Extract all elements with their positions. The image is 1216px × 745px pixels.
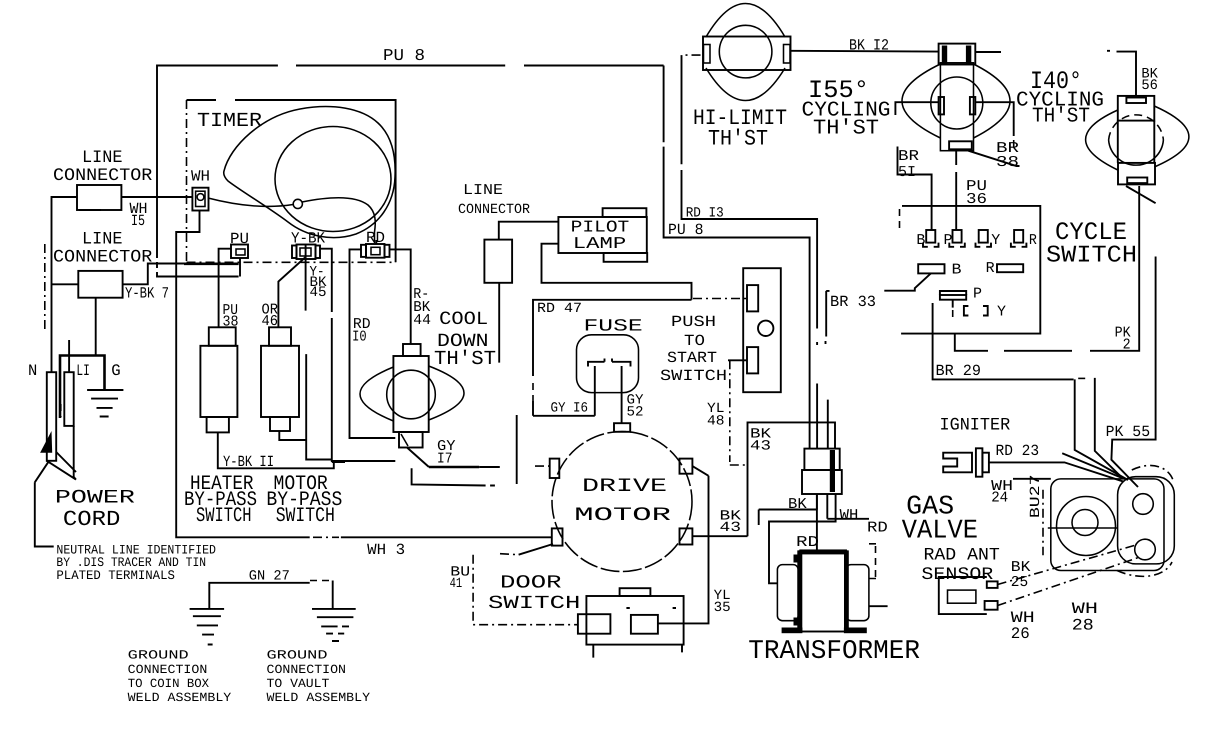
svg-text:WH: WH bbox=[840, 507, 859, 524]
svg-text:I5: I5 bbox=[131, 212, 145, 230]
relay contact R bar bbox=[986, 260, 1024, 277]
svg-text:41: 41 bbox=[450, 576, 463, 592]
drive motor bbox=[552, 432, 692, 572]
label motor by-pass switch bbox=[266, 473, 342, 528]
svg-text:P: P bbox=[973, 285, 982, 302]
timer cam follower small circle bbox=[293, 199, 302, 208]
svg-text:B: B bbox=[952, 261, 962, 278]
power cord body bbox=[35, 404, 76, 540]
heater by-pass switch bbox=[200, 327, 237, 432]
power cord prong N bbox=[47, 372, 56, 461]
svg-text:GROUND: GROUND bbox=[267, 648, 328, 662]
svg-text:26: 26 bbox=[1011, 625, 1030, 643]
labels B P Y R (top row) bbox=[916, 232, 1037, 249]
svg-text:TO COIN BOX: TO COIN BOX bbox=[128, 677, 210, 691]
svg-text:MOTOR: MOTOR bbox=[574, 504, 671, 526]
svg-text:SENSOR: SENSOR bbox=[921, 565, 993, 585]
motor upper-left terminal bbox=[535, 459, 559, 478]
label POWER CORD bbox=[55, 487, 135, 533]
ground symbol coin box bbox=[190, 609, 225, 645]
label 140 cycling thst bbox=[1016, 67, 1104, 129]
wire motor by-pass bottom bbox=[279, 431, 306, 440]
wire BK (plug to motor junction) bbox=[759, 494, 817, 525]
svg-text:I7: I7 bbox=[437, 451, 453, 468]
wire BK 12 bbox=[791, 37, 1001, 55]
wire PU 8 (top horizontal run) bbox=[157, 46, 664, 277]
svg-text:LINE: LINE bbox=[463, 182, 503, 199]
cycle switch contact 2 bbox=[949, 230, 965, 247]
ground symbol vault bbox=[310, 581, 356, 642]
door switch bbox=[578, 588, 684, 657]
power cord prong LI bbox=[64, 340, 73, 426]
wire GN 27 bbox=[209, 568, 309, 609]
igniter bbox=[943, 448, 989, 476]
wire PK 55 bbox=[1106, 186, 1156, 487]
svg-text:CONNECTOR: CONNECTOR bbox=[458, 202, 531, 218]
svg-text:GN 27: GN 27 bbox=[249, 568, 290, 584]
label ground vault bbox=[267, 648, 371, 705]
svg-text:5I: 5I bbox=[898, 164, 916, 181]
svg-text:POWER: POWER bbox=[55, 487, 135, 509]
svg-text:IGNITER: IGNITER bbox=[940, 415, 1011, 435]
cycle switch box bbox=[900, 206, 1138, 334]
wire GY 17 bbox=[407, 438, 500, 468]
wire Y-BK 7 bbox=[123, 264, 239, 303]
svg-text:BK I2: BK I2 bbox=[849, 37, 889, 55]
wire RD left (plug to core) bbox=[796, 494, 819, 551]
svg-text:TO: TO bbox=[684, 332, 705, 350]
transformer plug assembly bbox=[802, 449, 842, 494]
wire BU27 bbox=[1028, 475, 1044, 556]
svg-text:WH: WH bbox=[1072, 600, 1098, 618]
svg-text:CORD: CORD bbox=[63, 508, 120, 532]
wire WH 15 bbox=[52, 197, 200, 372]
motor right-upper terminal bbox=[680, 459, 709, 476]
svg-text:PK 55: PK 55 bbox=[1106, 423, 1151, 441]
svg-text:Y-BK II: Y-BK II bbox=[223, 453, 274, 471]
svg-text:RD 23: RD 23 bbox=[996, 442, 1040, 460]
neutral line note bbox=[35, 540, 216, 583]
hi-limit thermostat bbox=[703, 4, 791, 101]
svg-text:FUSE: FUSE bbox=[584, 318, 643, 337]
ground symbol (power cord) bbox=[87, 390, 123, 417]
svg-text:Y: Y bbox=[991, 232, 1000, 249]
wire OR 46 bbox=[262, 257, 306, 330]
svg-text:RD I3: RD I3 bbox=[686, 206, 724, 222]
wire RD 47 boundary bbox=[533, 300, 692, 416]
transformer core bbox=[777, 550, 869, 633]
svg-text:RAD ANT: RAD ANT bbox=[924, 546, 1000, 566]
svg-text:VALVE: VALVE bbox=[902, 517, 978, 547]
svg-text:28: 28 bbox=[1072, 616, 1094, 634]
label 155 cycling thst bbox=[802, 76, 891, 141]
svg-text:52: 52 bbox=[627, 405, 644, 421]
wire RD right (plug to bracket) bbox=[827, 494, 888, 606]
svg-text:48: 48 bbox=[707, 414, 725, 430]
svg-text:TH'ST: TH'ST bbox=[434, 347, 496, 370]
svg-text:LI: LI bbox=[76, 362, 89, 380]
svg-text:TRANSFORMER: TRANSFORMER bbox=[748, 637, 920, 667]
wire Y-BK 45 stub bbox=[306, 245, 332, 460]
svg-text:PLATED TERMINALS: PLATED TERMINALS bbox=[56, 568, 175, 583]
line connector 2 bbox=[52, 230, 153, 298]
dash-dot boundary left of power cord bbox=[44, 244, 46, 332]
svg-text:BU27: BU27 bbox=[1028, 475, 1044, 519]
140 cycling thermostat bbox=[1086, 96, 1189, 184]
wire pilot lamp bottom to RD47 corner bbox=[542, 244, 692, 300]
svg-text:START: START bbox=[667, 349, 717, 367]
svg-text:N: N bbox=[28, 362, 37, 380]
wire connector3 to pilot lamp bbox=[499, 222, 559, 240]
terminal WH (timer) bbox=[191, 168, 210, 211]
wire GY 16 bbox=[533, 401, 595, 417]
cycle switch contact 1 bbox=[923, 230, 939, 247]
svg-text:TIMER: TIMER bbox=[197, 110, 262, 133]
wire R-BK 44 bbox=[390, 249, 432, 344]
svg-text:44: 44 bbox=[413, 312, 431, 329]
wire PU 38 bbox=[219, 249, 239, 331]
label WH 28 bbox=[1072, 600, 1098, 634]
pilot lamp bbox=[558, 208, 647, 262]
wire to motor upper-left terminal bbox=[412, 468, 495, 485]
svg-text:Y-BK 7: Y-BK 7 bbox=[125, 285, 169, 303]
svg-text:GY I6: GY I6 bbox=[551, 401, 589, 417]
wire PK 2 bbox=[955, 186, 1139, 354]
svg-text:TH'ST: TH'ST bbox=[1032, 106, 1090, 129]
svg-text:43: 43 bbox=[750, 439, 771, 455]
wire WH (plug to transformer) bbox=[769, 494, 858, 583]
wire line-connector3 drop bbox=[498, 283, 500, 363]
svg-text:Y-BK: Y-BK bbox=[291, 230, 326, 248]
wire BK 56 bbox=[1107, 51, 1158, 96]
svg-text:43: 43 bbox=[720, 520, 742, 536]
svg-text:WELD ASSEMBLY: WELD ASSEMBLY bbox=[128, 691, 232, 705]
svg-text:2: 2 bbox=[1123, 337, 1131, 354]
svg-text:WH 3: WH 3 bbox=[367, 541, 405, 559]
gas valve body bbox=[1048, 465, 1174, 576]
svg-text:CONNECTOR: CONNECTOR bbox=[53, 166, 153, 186]
line connector 3 label bbox=[458, 182, 531, 218]
motor by-pass switch bbox=[261, 327, 299, 431]
155 cycling thermostat bbox=[902, 44, 1010, 151]
wire left rail to WH 3 bbox=[176, 277, 551, 560]
relay contact B bar bbox=[918, 261, 961, 278]
svg-text:BR 29: BR 29 bbox=[936, 362, 982, 380]
svg-text:BK: BK bbox=[788, 496, 807, 513]
svg-text:SWITCH: SWITCH bbox=[488, 593, 580, 614]
label cool down thst bbox=[434, 308, 496, 370]
svg-text:PU 8: PU 8 bbox=[668, 221, 704, 239]
push to start switch bbox=[743, 268, 781, 392]
svg-text:38: 38 bbox=[996, 154, 1019, 171]
svg-text:COOL: COOL bbox=[439, 308, 488, 330]
label ground coin box bbox=[128, 648, 232, 705]
svg-text:56: 56 bbox=[1141, 78, 1158, 94]
wire from Y-BK terminal right side bbox=[320, 249, 332, 462]
svg-text:TH'ST: TH'ST bbox=[708, 127, 768, 152]
svg-text:35: 35 bbox=[714, 600, 731, 616]
label WH 24 bbox=[991, 478, 1013, 507]
timer internal curve from WH terminal to follower bbox=[208, 198, 293, 206]
svg-text:RD: RD bbox=[867, 519, 888, 536]
wire BU 41 bbox=[450, 555, 578, 625]
label GAS VALVE bbox=[902, 493, 978, 547]
svg-text:DRIVE: DRIVE bbox=[582, 475, 667, 497]
svg-text:I0: I0 bbox=[352, 329, 367, 346]
svg-text:PU 8: PU 8 bbox=[383, 46, 425, 65]
wire RD 13 bbox=[682, 55, 818, 449]
wire fuse left to GY16 bbox=[594, 366, 596, 416]
svg-text:CONNECTION: CONNECTION bbox=[128, 663, 208, 677]
cool down thermostat bbox=[360, 344, 464, 448]
relay contact P bbox=[940, 285, 982, 318]
svg-text:TH'ST: TH'ST bbox=[813, 118, 879, 141]
wire BR 29 bbox=[933, 303, 1123, 478]
label rad ant sensor bbox=[921, 546, 999, 586]
wire RD 23 bbox=[989, 442, 1124, 482]
svg-text:R: R bbox=[1029, 232, 1037, 249]
standalone vertical left of motor bbox=[516, 415, 518, 484]
svg-text:P: P bbox=[944, 232, 953, 249]
wire 155 left terminal / BR 51 bbox=[895, 102, 938, 230]
fuse bbox=[577, 318, 643, 393]
timer cam circle bbox=[275, 127, 391, 232]
wire PU 36 bbox=[956, 149, 987, 230]
svg-text:SWITCH: SWITCH bbox=[196, 505, 252, 528]
wire BR 33 bbox=[826, 273, 931, 448]
label hi-limit thst bbox=[693, 106, 787, 152]
wire BK 25 bbox=[998, 545, 1136, 591]
wire PU 8 vertical drop to junction bbox=[664, 66, 810, 449]
svg-text:TO VAULT: TO VAULT bbox=[267, 677, 330, 691]
svg-text:SWITCH: SWITCH bbox=[1046, 243, 1137, 270]
timer internal curve from follower to RD terminal bbox=[302, 198, 375, 243]
cycle switch contact 4 bbox=[1011, 230, 1027, 247]
motor top terminal bbox=[614, 423, 630, 432]
timer box bbox=[187, 100, 396, 262]
label BK 43 (near motor) bbox=[720, 509, 742, 537]
svg-text:LINE: LINE bbox=[82, 148, 123, 168]
cycle switch contact 3 bbox=[976, 230, 992, 247]
svg-text:BR 33: BR 33 bbox=[830, 293, 876, 311]
svg-text:DOOR: DOOR bbox=[500, 573, 562, 594]
svg-text:PUSH: PUSH bbox=[671, 313, 716, 331]
wire Y-BK 11 bbox=[218, 432, 345, 471]
svg-text:G: G bbox=[111, 362, 120, 380]
label door switch bbox=[488, 573, 580, 615]
label push to start switch bbox=[660, 313, 727, 385]
terminal PU (timer) bbox=[230, 230, 249, 277]
terminal Y-BK (timer) bbox=[291, 230, 326, 260]
svg-text:SWITCH: SWITCH bbox=[660, 367, 727, 385]
svg-text:R: R bbox=[986, 260, 995, 277]
svg-text:RD: RD bbox=[366, 229, 385, 247]
svg-text:Y: Y bbox=[997, 304, 1006, 321]
svg-text:LAMP: LAMP bbox=[573, 234, 627, 253]
wire 155 right terminal / BR 38 bbox=[968, 102, 1019, 171]
svg-text:GROUND: GROUND bbox=[128, 648, 189, 662]
rad ant sensor bbox=[939, 577, 998, 614]
timer cam outline bbox=[224, 107, 395, 238]
svg-text:B: B bbox=[916, 232, 925, 249]
svg-text:SWITCH: SWITCH bbox=[276, 505, 335, 528]
wire WH 26 bbox=[998, 557, 1140, 643]
svg-text:PU: PU bbox=[230, 230, 249, 248]
wire YL 35 bbox=[658, 476, 731, 624]
line connector 1 bbox=[53, 148, 153, 210]
relay contact Y bbox=[964, 304, 1006, 321]
wire dash to push switch top bbox=[693, 298, 747, 300]
svg-text:CONNECTION: CONNECTION bbox=[267, 663, 347, 677]
motor right-lower terminal bbox=[680, 528, 748, 544]
wire GY 52 (fuse right to motor) bbox=[622, 366, 644, 423]
power cord plug bracket N-LI-G bbox=[28, 356, 121, 419]
svg-text:BR: BR bbox=[898, 148, 919, 165]
svg-text:24: 24 bbox=[991, 490, 1008, 507]
svg-text:LINE: LINE bbox=[82, 230, 123, 250]
svg-text:CONNECTOR: CONNECTOR bbox=[53, 248, 153, 268]
svg-text:RD: RD bbox=[796, 534, 819, 551]
svg-text:25: 25 bbox=[1011, 574, 1028, 591]
wire from connector 2 bottom to plug bracket bbox=[95, 298, 97, 355]
wire RD 10 bbox=[350, 249, 396, 438]
svg-text:WH: WH bbox=[191, 168, 210, 186]
label heater by-pass switch bbox=[184, 473, 257, 528]
terminal RD (timer) bbox=[361, 229, 390, 258]
svg-text:WELD ASSEMBLY: WELD ASSEMBLY bbox=[267, 691, 371, 705]
wire BK 43 (motor right riser) bbox=[748, 422, 836, 536]
wire to cool down (y461) bbox=[332, 460, 396, 462]
motor lower-left terminal bbox=[500, 528, 563, 554]
wire YL 48 bbox=[707, 360, 747, 465]
svg-text:RD 47: RD 47 bbox=[537, 301, 582, 317]
svg-text:45: 45 bbox=[310, 285, 327, 301]
line connector 3 box bbox=[484, 240, 512, 283]
gas valve fan wires bbox=[1062, 379, 1128, 480]
